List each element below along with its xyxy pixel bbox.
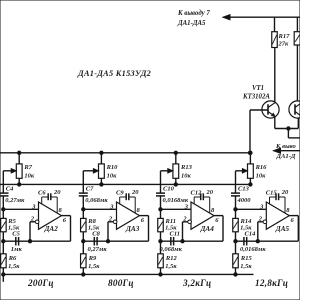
wire fb coupling left 1	[3, 240, 30, 242]
svg-text:С15: С15	[266, 190, 278, 197]
svg-text:К выводу 7: К выводу 7	[177, 10, 210, 17]
VT2 collector diagonal	[295, 104, 301, 108]
wire R14 to fb node	[235, 232, 237, 241]
arrow to pin 7	[223, 15, 230, 20]
svg-text:800Гц: 800Гц	[108, 278, 134, 288]
wire wiper drop С10	[160, 171, 162, 193]
svg-text:0,068мк: 0,068мк	[160, 246, 183, 253]
svg-text:3: 3	[109, 203, 114, 210]
svg-text:1,5к: 1,5к	[8, 263, 20, 270]
wire node to R5	[2, 209, 4, 218]
wire feedback right drop 4	[297, 216, 299, 242]
potentiometer R13	[173, 164, 179, 178]
wire wiper drop С13	[235, 171, 237, 193]
VT2 emitter diagonal	[295, 112, 301, 116]
resistor R8	[81, 218, 87, 231]
node emitter join	[287, 127, 290, 130]
wire С9 left lead	[120, 196, 127, 198]
wire feedback up to pin2 3	[182, 222, 184, 241]
wire wiper of R7	[3, 170, 16, 172]
wire wiper of R10	[83, 170, 98, 172]
svg-text:ДА1-ДА5: ДА1-ДА5	[177, 20, 206, 27]
wire fb coupling left 4	[236, 240, 258, 242]
svg-text:3: 3	[31, 203, 36, 210]
wire С7 to node	[82, 196, 84, 209]
potentiometer R7	[16, 164, 22, 178]
svg-text:С12: С12	[191, 190, 203, 197]
wire pot R13 top lead	[175, 153, 177, 164]
svg-text:1,5к: 1,5к	[88, 263, 100, 270]
wire R11 to fb node	[160, 232, 162, 241]
wire feedback right drop 3	[222, 216, 224, 242]
svg-text:3: 3	[184, 203, 189, 210]
svg-text:ДА4: ДА4	[200, 225, 215, 233]
svg-text:R9: R9	[88, 255, 97, 262]
svg-text:С8: С8	[92, 230, 100, 237]
wire supply bus top	[223, 16, 300, 18]
capacitor С12 20	[200, 193, 202, 200]
wire R8 to fb node	[82, 232, 84, 241]
svg-text:20: 20	[281, 189, 289, 196]
wire fb coupling left 2	[83, 240, 108, 242]
node pin3 ДА4	[159, 208, 162, 211]
svg-text:С9: С9	[116, 190, 124, 197]
wire node to R8	[82, 209, 84, 218]
wire feedback bottom 1	[30, 240, 71, 242]
svg-text:2: 2	[258, 216, 263, 223]
svg-text:10к: 10к	[107, 173, 118, 180]
wire node to pin 3 of ДА2	[3, 208, 38, 210]
svg-text:R15: R15	[240, 255, 253, 262]
svg-text:VT1: VT1	[252, 85, 264, 92]
transistor VT1	[262, 101, 279, 118]
wire pot R13 bottom lead	[175, 178, 177, 184]
wire С9 right lead / pin 8	[129, 196, 135, 198]
node feedback corner 2	[106, 240, 109, 243]
resistor R12	[158, 254, 164, 268]
op-amp ДА4	[191, 202, 214, 229]
svg-text:3: 3	[259, 203, 264, 210]
node pot R10 bottom junction	[100, 183, 103, 186]
capacitor С10	[156, 192, 165, 194]
node pin3 ДА2	[2, 208, 5, 211]
svg-text:20: 20	[53, 189, 61, 196]
wire pot R7 bottom lead	[18, 178, 20, 184]
node pot R16 top junction	[249, 151, 252, 154]
wire С4 to node	[2, 196, 4, 209]
op-amp ДА3	[117, 202, 140, 229]
svg-text:0,27мк: 0,27мк	[5, 197, 25, 204]
wire bottom bus	[2, 273, 254, 275]
wire R18 to VT2	[296, 45, 298, 101]
svg-text:ДА2: ДА2	[44, 225, 59, 233]
wire feedback up to pin2 4	[257, 222, 259, 241]
node pot R16 bottom junction	[249, 183, 252, 186]
wire output pin 6 of ДА4	[214, 215, 223, 217]
svg-text:1,5к: 1,5к	[165, 263, 177, 270]
svg-text:2: 2	[30, 216, 35, 223]
capacitor С15 20	[275, 193, 277, 200]
capacitor С6 20	[47, 193, 49, 200]
capacitor С4	[0, 192, 9, 194]
wire R18 top lead	[296, 17, 298, 32]
wire R17 top lead	[274, 17, 276, 32]
capacitor С14	[243, 237, 245, 246]
svg-text:КТ3102А: КТ3102А	[242, 94, 270, 101]
wire wiper drop С7	[82, 171, 84, 193]
wire pin 2 of ДА4	[183, 221, 188, 223]
capacitor С5	[15, 237, 17, 246]
node pin3 ДА5	[234, 208, 237, 211]
svg-text:R16: R16	[255, 164, 268, 171]
resistor R5	[1, 218, 7, 231]
node feedback corner 4	[256, 240, 259, 243]
resistor R17	[272, 32, 278, 48]
wire pin 2 of ДА5	[258, 221, 263, 223]
wire R17 to VT1 collector	[274, 48, 276, 102]
wire fb node to R12	[160, 241, 162, 254]
wire pot R16 top lead	[249, 153, 251, 164]
op-amp ДА2	[39, 202, 62, 229]
svg-text:ДА3: ДА3	[125, 225, 140, 233]
pin 2 inverting circle ДА2	[35, 220, 39, 224]
wire pot R7 top lead	[18, 153, 20, 164]
wire feedback right drop 1	[70, 216, 72, 242]
svg-text:20: 20	[206, 189, 214, 196]
node pot R7 bottom junction	[18, 183, 21, 186]
svg-text:200Гц: 200Гц	[27, 278, 54, 288]
wire node to pin 3 of ДА5	[236, 208, 267, 210]
node pin3 ДА3	[82, 208, 85, 211]
node bottom bus 4	[234, 273, 237, 276]
wire fb node to R15	[235, 241, 237, 254]
wire wiper of R13	[161, 170, 173, 172]
svg-text:К выво: К выво	[275, 143, 297, 150]
wire fb node to R9	[82, 241, 84, 254]
wire node to pin 3 of ДА4	[161, 208, 192, 210]
wire С12 left lead	[194, 196, 201, 198]
svg-text:0,27мк: 0,27мк	[88, 246, 108, 253]
node pot R7 top junction	[18, 151, 21, 154]
wire wiper drop С4	[2, 171, 4, 193]
capacitor С13	[231, 192, 240, 194]
wire pin 2 of ДА3	[108, 221, 113, 223]
svg-text:R13: R13	[180, 164, 193, 171]
wire fb coupling left 3	[161, 240, 183, 242]
potentiometer R10	[99, 164, 105, 178]
svg-text:1мк: 1мк	[11, 246, 23, 253]
svg-text:С10: С10	[163, 185, 175, 192]
resistor R9	[81, 254, 87, 268]
capacitor С8	[93, 237, 95, 246]
svg-text:R17: R17	[278, 33, 291, 40]
svg-text:4000: 4000	[237, 197, 252, 204]
wire feedback up to pin2 2	[107, 222, 109, 241]
pin 2 inverting circle ДА4	[188, 220, 192, 224]
node bottom bus 2	[82, 273, 85, 276]
wire output pin 6 of ДА3	[140, 215, 149, 217]
wire VT1 emitter drop	[274, 117, 276, 129]
pin 2 inverting circle ДА5	[263, 220, 267, 224]
wire node to R14	[235, 209, 237, 218]
node chain-fb 1	[2, 240, 5, 243]
svg-text:10к: 10к	[256, 173, 267, 180]
svg-text:20: 20	[131, 189, 139, 196]
wire pin 2 of ДА2	[30, 221, 35, 223]
wire С13 to node	[235, 196, 237, 209]
VT2 base bar	[294, 104, 296, 114]
node chain-fb 3	[159, 240, 162, 243]
node pot R13 bottom junction	[174, 183, 177, 186]
wire to pin 4 arrow	[274, 150, 301, 152]
VT1 base bar	[267, 104, 269, 114]
svg-text:R12: R12	[165, 255, 178, 262]
svg-text:ДА5: ДА5	[275, 225, 290, 233]
svg-text:С6: С6	[38, 190, 46, 197]
svg-text:10к: 10к	[181, 173, 192, 180]
svg-text:R6: R6	[8, 255, 17, 262]
wire VT2 emitter drop	[297, 118, 299, 129]
pin 2 inverting circle ДА3	[113, 220, 117, 224]
resistor R18	[294, 32, 300, 45]
wire feedback right drop 2	[148, 216, 150, 242]
resistor R15	[233, 254, 239, 268]
capacitor С11	[170, 237, 172, 246]
wire R12 to bottom bus	[160, 268, 162, 275]
svg-text:2: 2	[108, 216, 113, 223]
wire VT1 base	[250, 109, 268, 111]
transistor VT2	[289, 101, 306, 118]
potentiometer R16	[248, 164, 254, 178]
svg-text:27к: 27к	[278, 41, 290, 48]
svg-text:ДА1-Д: ДА1-Д	[276, 153, 296, 160]
wire emitter join	[275, 128, 299, 130]
wire top pot bus	[0, 152, 250, 154]
wire pot R10 bottom lead	[100, 178, 102, 184]
capacitor С9 20	[125, 193, 127, 200]
svg-text:С11: С11	[170, 230, 180, 237]
svg-text:3,2кГц: 3,2кГц	[182, 278, 211, 288]
node feedback corner 1	[28, 240, 31, 243]
svg-text:С13: С13	[238, 185, 250, 192]
wire output pin 6 of ДА2	[62, 215, 71, 217]
wire output pin 6 of ДА5	[289, 215, 298, 217]
wire С15 left lead	[270, 196, 277, 198]
wire R6 to bottom bus	[2, 268, 4, 275]
svg-text:R7: R7	[23, 164, 32, 171]
resistor R6	[1, 254, 7, 268]
wire fb node to R6	[2, 241, 4, 254]
capacitor С7	[79, 192, 88, 194]
wire pot R16 bottom lead	[249, 178, 251, 184]
svg-text:10к: 10к	[24, 173, 35, 180]
wire bottom stub	[2, 274, 4, 281]
svg-text:0,0168мк: 0,0168мк	[240, 246, 266, 253]
svg-text:0,068мк: 0,068мк	[85, 197, 108, 204]
wire С12 right lead / pin 8	[203, 196, 209, 198]
svg-text:12,8кГц: 12,8кГц	[255, 278, 288, 288]
wire С15 right lead / pin 8	[279, 196, 285, 198]
node bottom bus 3	[159, 273, 162, 276]
wire R15 to bottom bus	[235, 268, 237, 275]
node bottom bus 1	[2, 273, 5, 276]
wire feedback bottom 3	[183, 240, 224, 242]
node pot R10 top junction	[100, 151, 103, 154]
wire С6 right lead / pin 8	[51, 196, 57, 198]
node pot R13 top junction	[174, 151, 177, 154]
wire VT1 base riser	[249, 110, 251, 153]
svg-text:ДА1-ДА5 К153УД2: ДА1-ДА5 К153УД2	[77, 69, 151, 78]
node chain-fb 4	[234, 240, 237, 243]
svg-text:R10: R10	[106, 164, 119, 171]
node chain-fb 2	[82, 240, 85, 243]
svg-text:С7: С7	[86, 185, 94, 192]
VT1 emitter diagonal	[268, 112, 275, 117]
op-amp ДА5	[266, 202, 289, 229]
svg-text:2: 2	[182, 216, 187, 223]
resistor R11	[158, 218, 164, 231]
svg-text:1,5к: 1,5к	[240, 263, 252, 270]
svg-text:С14: С14	[245, 230, 257, 237]
wire wiper of R16	[236, 170, 248, 172]
wire R9 to bottom bus	[82, 268, 84, 275]
wire pot R10 top lead	[100, 153, 102, 164]
wire С10 to node	[160, 196, 162, 209]
wire feedback bottom 2	[108, 240, 149, 242]
resistor R14	[233, 218, 239, 231]
wire С6 left lead	[42, 196, 49, 198]
VT1 collector diagonal	[268, 103, 275, 108]
wire pot bottom bus	[0, 183, 250, 185]
wire feedback up to pin2 1	[29, 222, 31, 241]
svg-text:С4: С4	[6, 185, 14, 192]
wire feedback bottom 4	[258, 240, 299, 242]
wire node to pin 3 of ДА3	[83, 208, 116, 210]
wire R5 to fb node	[2, 232, 4, 241]
node bus end VT1	[248, 151, 251, 154]
wire exit branch	[287, 129, 289, 138]
wire node to R11	[160, 209, 162, 218]
arrow to pin 4	[274, 148, 281, 153]
svg-text:С5: С5	[12, 230, 20, 237]
node feedback corner 3	[181, 240, 184, 243]
